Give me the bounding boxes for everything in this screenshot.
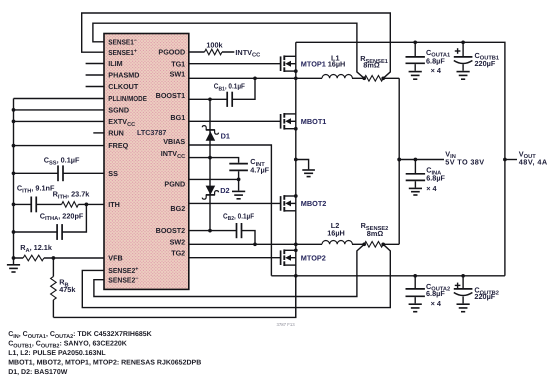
svg-text:FREQ: FREQ: [108, 141, 128, 150]
wire INTVCC pin to CINT: [189, 158, 239, 180]
svg-text:RITH, 23.7k: RITH, 23.7k: [53, 190, 91, 201]
wire VOUT stub: [505, 159, 517, 161]
svg-text:TG2: TG2: [171, 248, 185, 257]
svg-text:SENSE2+: SENSE2+: [108, 266, 139, 275]
ground COUTA2: [409, 303, 422, 305]
wire PGND pin: [189, 179, 239, 190]
wire SENSE2+ net: [82, 244, 390, 307]
svg-text:RA, 12.1k: RA, 12.1k: [20, 243, 53, 254]
svg-text:LTC3787: LTC3787: [137, 128, 166, 137]
svg-text:BG2: BG2: [170, 204, 185, 213]
capacitor COUTB2 220uF polarized: [462, 276, 464, 304]
svg-text:SENSE2−: SENSE2−: [108, 275, 139, 284]
svg-text:MTOP1: MTOP1: [301, 59, 326, 68]
wire BG2 to MBOT2 gate: [189, 202, 281, 204]
svg-text:MBOT1: MBOT1: [301, 117, 327, 126]
svg-text:SW2: SW2: [170, 237, 186, 246]
svg-text:D2: D2: [220, 186, 229, 195]
svg-text:16µH: 16µH: [327, 229, 345, 238]
wire RSENSE2 to VIN rail: [383, 243, 399, 245]
svg-text:SENSE1−: SENSE1−: [108, 37, 137, 46]
svg-text:16µH: 16µH: [328, 60, 346, 69]
svg-text:COUTB1, COUTB2: SANYO, 63CE220: COUTB1, COUTB2: SANYO, 63CE220K: [8, 341, 127, 350]
node MTOP2 drain on VOUT rail: [294, 274, 298, 278]
svg-text:6.8µF: 6.8µF: [426, 289, 445, 298]
wire L2 to RSENSE2: [352, 243, 364, 245]
node SW midpoint gnd: [294, 158, 298, 162]
svg-text:CIN, COUTA1, COUTA2: TDK C4532: CIN, COUTA1, COUTA2: TDK C4532X7RIH685K: [8, 331, 152, 340]
inductor L2 16uH: [322, 241, 352, 245]
wire FREQ to rail: [14, 145, 105, 147]
resistor RA 12.1k: [23, 255, 44, 261]
wire TG2 to MTOP2 gate: [189, 257, 281, 259]
capacitor CINA 6.8uF x4: [414, 160, 416, 188]
capacitor CB1 0.1uF: [226, 92, 228, 107]
svg-text:MBOT2: MBOT2: [301, 199, 327, 208]
svg-text:D1: D1: [221, 131, 230, 140]
transistor MTOP2: [280, 250, 282, 265]
svg-text:SENSE1+: SENSE1+: [108, 48, 137, 57]
svg-text:6.8µF: 6.8µF: [426, 56, 445, 65]
resistor RB 475k: [52, 258, 54, 317]
svg-text:SS: SS: [108, 169, 118, 178]
svg-text:VFB: VFB: [108, 254, 122, 263]
ground COUTB2: [457, 303, 470, 305]
svg-text:D1, D2: BAS170W: D1, D2: BAS170W: [8, 369, 68, 376]
capacitor CITHA 220pF: [56, 224, 58, 240]
capacitor CB2 0.1uF: [236, 223, 238, 238]
wire BG1 to MBOT1 gate: [189, 120, 281, 122]
svg-text:CB2, 0.1µF: CB2, 0.1µF: [223, 211, 255, 222]
stub CLKOUT pin: [86, 86, 104, 88]
svg-text:BOOST2: BOOST2: [156, 226, 186, 235]
wire VOUT top rail: [296, 42, 505, 275]
transistor MBOT1: [280, 114, 282, 129]
svg-text:CSS, 0.1µF: CSS, 0.1µF: [44, 156, 80, 167]
svg-text:8mΩ: 8mΩ: [363, 61, 380, 70]
svg-text:4.7µF: 4.7µF: [250, 166, 269, 175]
wire VFB node: [14, 257, 105, 259]
resistor RITH 23.7k: [62, 202, 79, 208]
svg-text:475k: 475k: [59, 285, 76, 294]
transistor MTOP1: [280, 56, 282, 71]
svg-text:× 4: × 4: [431, 66, 442, 75]
capacitor COUTA2 6.8uF x4: [414, 276, 416, 304]
ground CINA: [409, 187, 422, 189]
wire PLLIN/MODE to ground rail: [14, 98, 105, 100]
svg-text:100k: 100k: [206, 41, 223, 50]
plus sign COUTB1: [455, 50, 461, 52]
svg-text:× 4: × 4: [426, 184, 437, 193]
wire SENSE1+ net (outer top loop): [82, 13, 391, 78]
label CB1 value: [214, 82, 246, 93]
svg-text:SW1: SW1: [170, 70, 186, 79]
wire SENSE2- net: [94, 244, 364, 296]
wire VIN stub: [399, 159, 444, 161]
svg-text:RUN: RUN: [108, 129, 124, 138]
resistor 100k pull-up: [205, 49, 223, 55]
svg-text:PHASMD: PHASMD: [108, 71, 139, 80]
ground COUTA1: [409, 71, 422, 73]
svg-text:MBOT1, MBOT2, MTOP1, MTOP2: RE: MBOT1, MBOT2, MTOP1, MTOP2: RENESAS RJK0…: [8, 360, 201, 367]
wire RSENSE1 to VIN rail: [383, 77, 399, 79]
wire BOOST1 pin: [189, 78, 255, 99]
inductor L1 16uH: [322, 75, 352, 79]
svg-text:5V TO 38V: 5V TO 38V: [445, 157, 484, 166]
svg-text:ILIM: ILIM: [108, 59, 122, 68]
ground CINT: [232, 190, 245, 192]
resistor RSENSE2 8mOhm: [364, 242, 383, 248]
svg-text:220µF: 220µF: [475, 59, 496, 68]
wire L1 to RSENSE1: [352, 77, 364, 79]
wire VOUT bottom rail: [271, 275, 505, 277]
pin labels left side: [108, 37, 137, 46]
capacitor CITH 9.1nF: [30, 197, 32, 213]
wire left ground rail: [13, 99, 15, 259]
svg-text:CLKOUT: CLKOUT: [108, 82, 139, 91]
wire SGND to rail: [14, 109, 105, 111]
svg-text:MTOP2: MTOP2: [301, 253, 326, 262]
wire VBIAS to VOUT rail: [189, 145, 272, 276]
resistor RSENSE1 8mOhm: [364, 76, 383, 82]
svg-text:SGND: SGND: [108, 106, 129, 115]
svg-text:BOOST1: BOOST1: [156, 91, 186, 100]
wire CITHA branch: [14, 204, 87, 232]
wire SS to CSS: [14, 172, 105, 174]
label CB2 value: [223, 211, 255, 222]
svg-text:CB1, 0.1µF: CB1, 0.1µF: [214, 82, 246, 93]
svg-text:PGND: PGND: [164, 180, 185, 189]
diode D1 BAS170W (schottky): [206, 131, 216, 140]
svg-text:48V, 4A: 48V, 4A: [519, 157, 548, 166]
ground COUTB1: [457, 71, 470, 73]
capacitor CINT 4.7uF: [229, 163, 248, 165]
capacitor COUTB1 220uF polarized: [462, 42, 464, 71]
svg-text:BG1: BG1: [170, 113, 185, 122]
wire VIN rail: [398, 78, 400, 244]
svg-text:L1, L2: PULSE PA2050.163NL: L1, L2: PULSE PA2050.163NL: [8, 350, 106, 357]
capacitor CSS 0.1uF: [57, 165, 59, 181]
wire SENSE1- net (inner top loop): [93, 23, 364, 78]
wire VOUT feedback bottom: [53, 276, 295, 318]
transistor MBOT2: [280, 196, 282, 211]
wire PGOOD pin: [189, 51, 235, 53]
svg-text:3787 F13: 3787 F13: [277, 322, 296, 327]
ground power stage: [302, 169, 315, 171]
wire TG1 to MTOP1 gate: [189, 63, 281, 65]
wire EXTVCC to rail: [14, 120, 105, 122]
stub PHASMD pin: [86, 74, 104, 76]
wire SW2 node: [189, 243, 322, 245]
svg-text:6.8µF: 6.8µF: [426, 173, 445, 182]
wire BOOST2 pin: [189, 231, 255, 245]
svg-text:× 4: × 4: [431, 299, 442, 308]
svg-text:TG1: TG1: [171, 59, 185, 68]
svg-text:PLLIN/MODE: PLLIN/MODE: [108, 94, 147, 103]
diode D2 BAS170W (schottky): [206, 186, 216, 195]
wire diode riser BOOST1-INTVCC-BOOST2: [209, 99, 211, 230]
wire MOSFET column: [295, 42, 297, 317]
wire gnd stub: [296, 160, 309, 170]
stub RUN pin: [93, 132, 104, 134]
stub ILIM pin: [86, 63, 104, 65]
svg-text:CITHA, 220pF: CITHA, 220pF: [40, 211, 84, 222]
svg-text:INTVCC: INTVCC: [235, 48, 260, 59]
svg-text:220µF: 220µF: [474, 292, 495, 301]
wire SW1 node: [189, 77, 322, 79]
svg-text:8mΩ: 8mΩ: [367, 229, 384, 238]
plus sign COUTB2: [455, 284, 461, 286]
svg-text:VBIAS: VBIAS: [163, 137, 185, 146]
capacitor COUTA1 6.8uF x4: [414, 42, 416, 71]
svg-text:CITH, 9.1nF: CITH, 9.1nF: [17, 184, 55, 195]
svg-text:PGOOD: PGOOD: [158, 48, 185, 57]
ground left rail: [13, 258, 15, 265]
wire ITH net: [14, 203, 105, 205]
svg-text:ITH: ITH: [108, 200, 120, 209]
